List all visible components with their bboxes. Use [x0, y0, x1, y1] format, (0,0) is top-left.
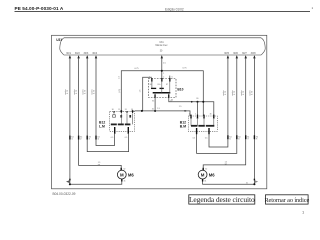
svg-text:1.5: 1.5 [140, 89, 142, 93]
strip right brace [261, 38, 265, 55]
B16 internal stubs [191, 118, 214, 126]
B16 internal contact bar [191, 125, 197, 127]
svg-text:1: 1 [312, 6, 314, 10]
svg-text:6: 6 [172, 76, 173, 78]
connector labels right [229, 136, 258, 140]
svg-text:sw/ws: sw/ws [83, 89, 85, 94]
svg-text:M6: M6 [209, 173, 215, 178]
B10 top pin 1 [151, 78, 152, 82]
svg-text:B04.00-0322-09: B04.00-0322-09 [53, 192, 76, 196]
wire R1 (from B16 pin) [209, 57, 228, 147]
ground tick right wire [254, 179, 255, 181]
K12 internal coil box [113, 115, 116, 117]
svg-text:30/5: 30/5 [224, 52, 229, 55]
svg-text:2: 2 [163, 76, 164, 78]
svg-text:30/3: 30/3 [83, 52, 88, 55]
header rule [15, 11, 311, 13]
motor M6 left circle [117, 170, 126, 179]
center wire from strip to B10 [161, 57, 163, 78]
B10 internal stubs [152, 82, 170, 95]
W1 arrow [185, 110, 187, 112]
svg-text:30/8: 30/8 [251, 52, 256, 55]
B16 bottom pin 1 [196, 128, 197, 134]
svg-text:30: 30 [210, 114, 212, 116]
motor left return wire [70, 182, 122, 185]
left pin labels [66, 52, 98, 55]
svg-text:L.M: L.M [99, 124, 105, 128]
svg-text:1.5: 1.5 [118, 75, 120, 79]
svg-text:M: M [201, 172, 205, 177]
B16 pin labels [189, 114, 212, 116]
motor M6 left bottom pin [121, 179, 122, 182]
svg-text:sw/ws: sw/ws [241, 90, 243, 95]
svg-text:1.5: 1.5 [157, 108, 160, 110]
return junction right [253, 183, 255, 185]
connector strip U31 top edge [64, 37, 261, 39]
svg-text:1: 1 [189, 114, 190, 116]
svg-text:87a: 87a [158, 84, 161, 86]
W2 arrow [191, 101, 193, 103]
svg-text:85: 85 [152, 100, 154, 102]
svg-text:sw/ws: sw/ws [223, 90, 225, 95]
svg-text:30/6: 30/6 [233, 52, 238, 55]
wire R3 (right motor feed) [203, 57, 246, 168]
wire W1 to B16 pin 1 [135, 111, 191, 116]
svg-text:1: 1 [163, 73, 164, 75]
svg-text:/1: /1 [71, 139, 73, 141]
svg-text:30/2: 30/2 [75, 52, 80, 55]
K12 internal contact bar [111, 123, 117, 125]
svg-text:U31: U31 [159, 42, 164, 44]
motor M6 left top pin [121, 168, 122, 171]
stub to B16 pin 2 [197, 102, 199, 116]
svg-text:B.M: B.M [180, 124, 186, 128]
svg-text:30/1: 30/1 [66, 52, 71, 55]
svg-text:4: 4 [149, 76, 150, 78]
svg-text:31: 31 [204, 181, 206, 183]
svg-text:sw/ws: sw/ws [232, 90, 234, 95]
wire R2 (from B16 pin) [197, 57, 237, 153]
wire R4 (ground return) [253, 57, 255, 184]
svg-text:0.75: 0.75 [234, 90, 236, 95]
B10 bottom pin 2 [168, 94, 169, 97]
return junction left [69, 183, 71, 185]
svg-text:1.5: 1.5 [179, 106, 182, 108]
K12 junction dots on top edge [120, 110, 122, 112]
motor M6 right bottom pin [202, 179, 203, 182]
svg-text:PE 54.00-P-0030-01 A: PE 54.00-P-0030-01 A [15, 6, 64, 11]
K12 bottom pin 1 [114, 127, 115, 134]
bus wire 30 [121, 71, 203, 116]
svg-text:0.75: 0.75 [243, 90, 245, 95]
svg-text:87: 87 [166, 84, 168, 86]
svg-text:15: 15 [118, 109, 120, 111]
svg-text:B10: B10 [177, 87, 183, 91]
svg-text:Legenda deste circuito: Legenda deste circuito [189, 195, 255, 204]
svg-text:2: 2 [195, 114, 196, 116]
svg-text:0.75: 0.75 [76, 89, 78, 94]
wire L4 (to K12 pin) [96, 57, 115, 145]
svg-text:/6: /6 [238, 139, 240, 141]
svg-text:/8: /8 [256, 139, 257, 141]
connector labels left [71, 136, 99, 140]
wire L2 (left motor feed) [79, 57, 122, 168]
svg-text:Retornar ao índice: Retornar ao índice [264, 197, 309, 204]
svg-text:0.75: 0.75 [252, 90, 254, 95]
svg-text:8: 8 [171, 100, 172, 102]
K12 top pin arrows [113, 111, 133, 113]
svg-text:15: 15 [152, 109, 154, 111]
svg-text:/4: /4 [97, 139, 99, 141]
relay B10 dashed box [149, 79, 177, 98]
motor M6 right top pin [203, 168, 204, 171]
svg-text:sw/ws: sw/ws [65, 89, 67, 94]
svg-text:Edição 01/02: Edição 01/02 [165, 7, 184, 11]
svg-text:(1.5): (1.5) [119, 89, 121, 93]
svg-text:30: 30 [150, 84, 152, 86]
K12 pin number labels above [112, 109, 133, 111]
inline connector ticks right wires [227, 135, 255, 139]
relay K12 box (left pump relay) [110, 111, 135, 131]
svg-text:1.5: 1.5 [163, 62, 167, 64]
B10 internal contact bar upper [151, 87, 156, 89]
pump unit B16 box (right) [188, 116, 217, 131]
strip pin arrows [69, 55, 256, 58]
B10 pin 3 stub [169, 76, 171, 78]
W1 junction dots [141, 110, 143, 112]
svg-text:30: 30 [112, 109, 114, 111]
svg-text:M6: M6 [128, 173, 134, 178]
wire gauge rotated labels right group [223, 90, 254, 96]
B16 bottom pin 2 [208, 128, 209, 134]
svg-text:0.5: 0.5 [205, 137, 208, 139]
svg-text:0.5: 0.5 [111, 137, 114, 139]
svg-text:0.75: 0.75 [135, 68, 140, 70]
inline connector ticks left wires [69, 136, 97, 140]
svg-text:30: 30 [196, 98, 198, 100]
legend button [189, 195, 255, 204]
svg-text:/2: /2 [80, 139, 82, 141]
right pin labels [224, 52, 256, 55]
svg-text:sw/ws: sw/ws [91, 89, 93, 94]
svg-text:30: 30 [160, 51, 163, 53]
svg-text:sw/ws: sw/ws [74, 89, 76, 94]
motor M6 right circle [198, 170, 207, 179]
wire V2 from B10 pin1 down to W1 [143, 77, 152, 111]
svg-text:32: 32 [205, 169, 207, 171]
svg-text:30/4: 30/4 [92, 52, 97, 55]
svg-text:/7: /7 [247, 139, 249, 141]
svg-text:30/7: 30/7 [242, 52, 247, 55]
svg-text:1: 1 [302, 209, 305, 214]
svg-text:/5: /5 [229, 139, 231, 141]
B10 pin number labels [149, 73, 173, 102]
svg-text:Monta 4 tec: Monta 4 tec [155, 44, 168, 47]
svg-text:0.75: 0.75 [225, 90, 227, 95]
svg-text:0.75: 0.75 [183, 67, 188, 69]
K12 bottom pin 2 [128, 127, 129, 134]
svg-text:31: 31 [124, 181, 126, 183]
wire L3 (to K12 pin) [87, 57, 128, 151]
svg-text:/3: /3 [89, 139, 91, 141]
connector strip U31 bottom edge [64, 54, 261, 56]
wire gauge rotated labels left group [65, 89, 95, 95]
wire L1 (ground return from connector) [69, 57, 71, 184]
ground tick left wire [69, 179, 70, 181]
index button [266, 195, 309, 204]
ground flag right [255, 180, 258, 183]
strip left brace [60, 38, 64, 55]
motor right return wire [203, 182, 255, 185]
svg-text:32: 32 [123, 169, 125, 171]
svg-text:0.5: 0.5 [125, 137, 128, 139]
svg-text:sw/ws: sw/ws [250, 90, 252, 95]
svg-text:31: 31 [246, 182, 248, 184]
B10 top pin 2 [161, 78, 162, 82]
svg-text:0.75: 0.75 [67, 89, 69, 94]
svg-text:0.5: 0.5 [193, 137, 196, 139]
B10 top pin 3 [169, 78, 170, 82]
K12 internal stubs [114, 114, 133, 125]
svg-text:31: 31 [125, 109, 127, 111]
W2 junction dots [202, 101, 204, 103]
B10 bottom pin 1 [154, 94, 155, 97]
junction bus/center [161, 70, 163, 72]
B10 internal contact bar lower [153, 92, 171, 94]
schematic frame [52, 35, 267, 189]
B10 pin stub to W1 [154, 98, 156, 111]
wire W2 from B10 pin to B16 [169, 98, 214, 116]
ground flag left [66, 180, 69, 183]
svg-text:0.75: 0.75 [93, 89, 95, 94]
B16 top pin arrows [190, 115, 215, 119]
svg-text:M: M [120, 172, 124, 177]
svg-text:0.75: 0.75 [85, 89, 87, 94]
